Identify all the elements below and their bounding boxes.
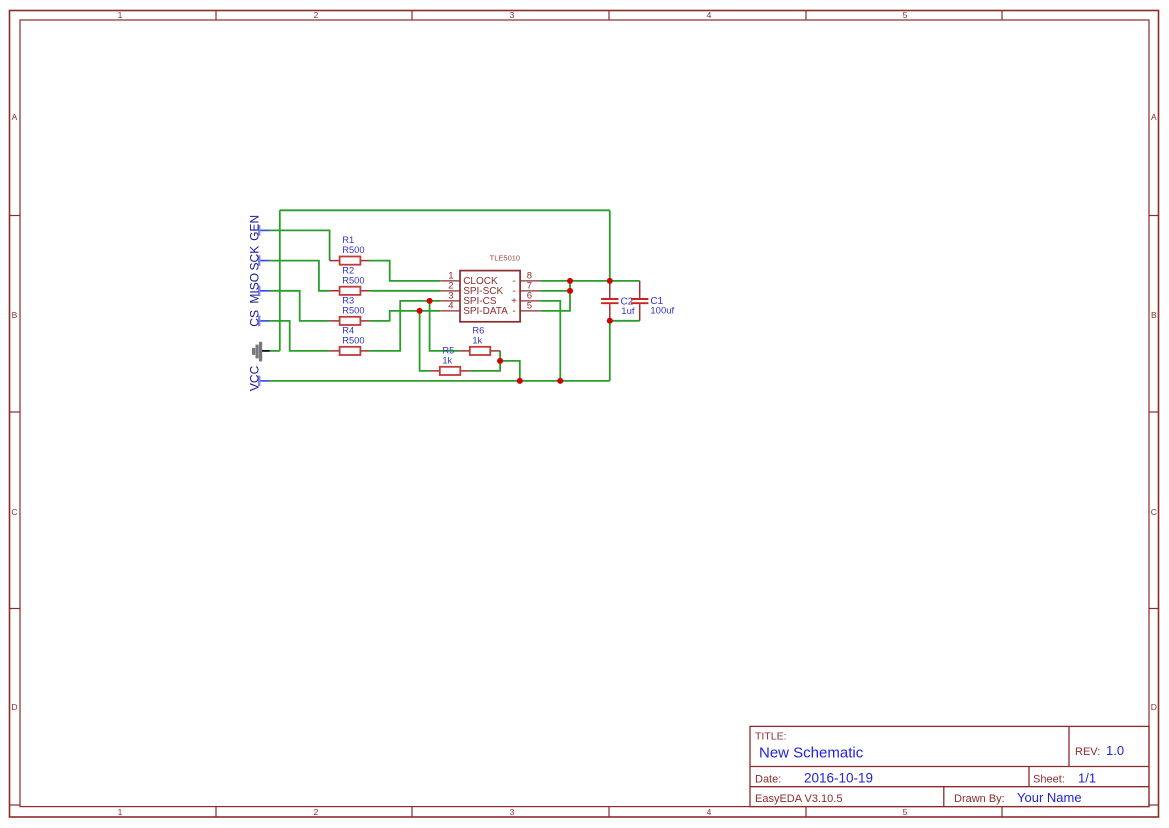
svg-text:R5: R5 [442,345,454,355]
node MISO [247,273,269,304]
wire VCC bus [270,380,610,382]
wire R6 out down to junction [499,351,501,361]
frame row ticks right [1149,216,1159,806]
svg-text:Drawn By:: Drawn By: [954,793,1005,805]
svg-text:GEN: GEN [247,215,261,241]
svg-text:1/1: 1/1 [1078,771,1096,786]
svg-text:Your Name: Your Name [1017,790,1082,805]
wire R5 out to junction [470,361,500,371]
pin 5 [520,301,540,312]
pin 3 [440,291,517,308]
svg-text:REV:: REV: [1075,746,1100,758]
junction dots [417,278,613,384]
svg-text:R2: R2 [342,265,354,275]
svg-text:2016-10-19: 2016-10-19 [804,771,873,786]
frame column numbers bottom [118,807,908,817]
wire right vertical from top bus to C2 [609,210,611,281]
svg-text:SPI-DATA: SPI-DATA [463,306,508,317]
svg-text:1k: 1k [442,356,452,366]
wire pin5 up to pin8 net [540,281,570,311]
svg-text:4: 4 [707,807,712,817]
svg-text:D: D [11,702,17,712]
frame row letters right [1151,112,1157,712]
frame column numbers top [118,10,908,20]
wire pin6 down to VCC bus [540,301,560,381]
resistor R1 [330,235,370,265]
pin 2 [440,281,515,298]
junction C2 top [607,278,613,284]
svg-text:A: A [12,112,18,122]
wire pin8 to C2 C1 top [540,280,640,282]
svg-text:R6: R6 [472,325,484,335]
wire R1 out to pin1 [370,261,441,281]
svg-text:New Schematic: New Schematic [759,745,864,762]
resistor R2 [330,265,370,295]
svg-text:R3: R3 [342,295,354,305]
svg-text:Sheet:: Sheet: [1033,774,1065,786]
junction R5 R6 [497,358,503,364]
resistor R4 [330,325,370,355]
node VCC [247,365,269,391]
svg-text:4: 4 [448,301,453,312]
pin 4 [440,301,515,318]
op-amp U1 TLE5010 body [460,253,520,322]
wire C1 bottom to C2 bottom to VCC bus [610,321,640,381]
svg-text:5: 5 [903,807,908,817]
svg-text:5: 5 [527,301,532,312]
svg-text:A: A [1151,112,1157,122]
wire GEN to R1 [270,230,330,260]
resistor R3 [330,295,370,325]
svg-text:4: 4 [707,10,712,20]
frame column ticks top [216,11,1002,21]
node GEN [247,215,269,241]
svg-text:R500: R500 [342,275,364,285]
svg-text:1: 1 [118,10,123,20]
wire pin3 branch down to R6 [430,301,460,351]
wire junction to VCC bus [500,361,520,381]
svg-text:R4: R4 [342,325,354,335]
wire pin4 branch down to R5 [420,311,430,371]
svg-text:D: D [1151,702,1157,712]
junction pin7 [567,288,573,294]
junction C2 bottom [607,318,613,324]
ground [254,342,270,362]
resistor R6 [460,325,500,355]
svg-text:1: 1 [118,807,123,817]
junction bus right [557,378,563,384]
svg-text:B: B [1151,310,1157,320]
svg-text:VCC: VCC [247,365,261,391]
svg-text:C: C [1151,507,1157,517]
wire R4 out to pin3 [370,301,441,351]
svg-text:EasyEDA V3.10.5: EasyEDA V3.10.5 [755,793,842,805]
wire top bus [280,209,610,211]
wire R3 out to pin4 [370,311,441,321]
wire ground row stub [270,350,280,352]
frame row ticks left [10,216,21,806]
svg-text:SCK: SCK [247,246,261,271]
svg-text:MISO: MISO [247,273,261,304]
junction bus left [517,378,523,384]
frame row letters left [11,112,17,712]
svg-text:3: 3 [510,10,515,20]
svg-text:B: B [12,310,18,320]
svg-text:1.0: 1.0 [1106,743,1124,758]
capacitor C1 [631,281,675,321]
svg-text:TLE5010: TLE5010 [490,253,520,262]
pin 1 [440,271,515,288]
junction pin3 branch [427,298,433,304]
wire pin7 [540,290,570,292]
svg-text:2: 2 [314,10,319,20]
svg-text:TITLE:: TITLE: [755,731,787,743]
wire left vertical to ground row [279,210,281,351]
svg-text:1uf: 1uf [621,306,635,317]
svg-text:3: 3 [510,807,515,817]
title block frame [750,726,1149,806]
svg-text:R500: R500 [342,336,364,346]
svg-text:Date:: Date: [755,774,781,786]
wire SCK to R2 [270,261,330,291]
junction pin8 [567,278,573,284]
svg-text:100uf: 100uf [650,305,674,316]
svg-text:1k: 1k [472,336,482,346]
wire R2 out to pin2 [370,290,441,292]
svg-text:R500: R500 [342,306,364,316]
svg-text:5: 5 [903,10,908,20]
svg-text:R500: R500 [342,245,364,255]
node CS [247,310,269,327]
svg-text:2: 2 [314,807,319,817]
svg-text:C: C [11,507,17,517]
wire MISO to R3 [270,291,330,321]
pin 6 [520,291,540,302]
capacitor C2 [601,281,635,321]
node SCK [247,246,269,271]
pin 8 [520,271,540,282]
junction pin4 branch [417,308,423,314]
frame column ticks bottom [216,807,1002,817]
svg-text:-: - [512,306,515,317]
pin 7 [520,281,540,292]
resistor R5 [430,345,470,375]
svg-text:R1: R1 [342,235,354,245]
svg-text:CS: CS [247,310,261,327]
wire CS to R4 [270,321,330,351]
